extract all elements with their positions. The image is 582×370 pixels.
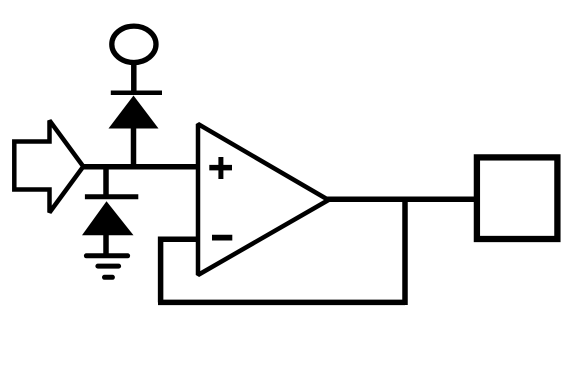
- wire: diode D2 to ground: [103, 233, 109, 256]
- op-amp U1: [198, 124, 329, 275]
- diode D1 cathode bar: [111, 91, 162, 96]
- op-amp + label: [209, 157, 232, 179]
- input port arrow: [14, 121, 83, 213]
- wire: junction up to diode D1: [131, 126, 137, 167]
- wire: feedback bottom horizontal: [158, 300, 405, 306]
- supply circle: [112, 26, 156, 62]
- output box: [477, 157, 558, 239]
- wire: op-amp output to box: [324, 197, 474, 203]
- diode D2 cathode bar: [85, 194, 138, 199]
- wire: feedback left vertical: [158, 237, 164, 303]
- op-amp - label: [212, 235, 232, 241]
- ground: [86, 256, 127, 277]
- diode D2 anode triangle: [82, 201, 134, 235]
- wire: diode D1 to supply circle: [131, 63, 137, 95]
- wire: junction down to diode D2: [103, 166, 109, 197]
- wire: feedback right vertical: [402, 197, 408, 305]
- wire: feedback stub to - input: [158, 236, 198, 242]
- wire: arrow tip to op-amp + input: [81, 164, 200, 170]
- diode D1 anode triangle: [109, 96, 159, 129]
